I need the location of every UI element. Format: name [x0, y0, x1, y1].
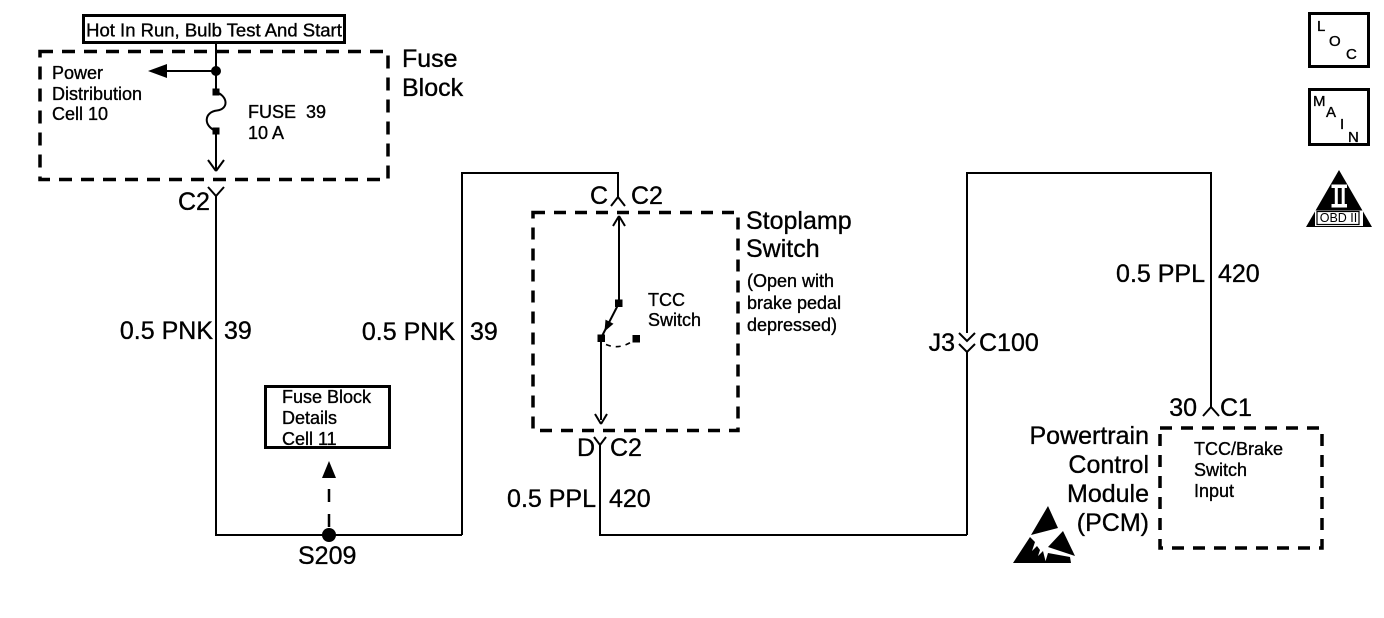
svg-text:C: C	[1346, 46, 1357, 63]
svg-text:420: 420	[609, 485, 651, 513]
wire: 0.5 PPL 420 from C100 up and across to PCM	[967, 173, 1211, 407]
connector C2 below fuse block	[178, 187, 224, 216]
svg-text:Details: Details	[282, 408, 337, 428]
svg-text:0.5 PPL: 0.5 PPL	[1116, 260, 1205, 288]
fuse block dashed box	[40, 52, 388, 180]
svg-text:J3: J3	[929, 329, 955, 357]
wire: 0.5 PNK 39 up and across to stoplamp switch	[462, 173, 618, 535]
label: 0.5 PPL 420 (upper right)	[1116, 260, 1260, 288]
svg-text:C: C	[590, 182, 608, 210]
svg-text:Stoplamp: Stoplamp	[746, 207, 852, 235]
svg-text:Powertrain: Powertrain	[1030, 422, 1150, 450]
label: 0.5 PNK 39 (middle)	[362, 318, 498, 346]
svg-text:(Open with: (Open with	[747, 271, 834, 291]
LOC symbol box	[1310, 14, 1369, 67]
dashed reference arrow from S209 to details box	[322, 461, 336, 527]
svg-text:Switch: Switch	[648, 310, 701, 330]
callout box: Fuse Block Details Cell 11	[266, 387, 390, 450]
MAIN symbol box	[1310, 90, 1369, 147]
node: junction at fuse feed	[211, 66, 221, 76]
svg-text:C2: C2	[631, 182, 663, 210]
wire: switch output with down arrow	[595, 341, 607, 424]
svg-text:Fuse Block: Fuse Block	[282, 387, 372, 407]
wire: switch input with up arrow	[613, 216, 625, 300]
splice S209	[322, 528, 336, 542]
svg-text:Cell 10: Cell 10	[52, 104, 108, 124]
connector terminal C at C2 (stoplamp input)	[590, 182, 663, 210]
svg-text:I: I	[1340, 116, 1344, 133]
svg-text:O: O	[1329, 33, 1341, 50]
svg-text:depressed): depressed)	[747, 315, 837, 335]
svg-text:Power: Power	[52, 63, 103, 83]
svg-text:39: 39	[470, 318, 498, 346]
wire: fuse output with down arrow	[208, 134, 224, 171]
ESD sensitive device symbol	[1013, 506, 1075, 563]
svg-text:OBD II: OBD II	[1320, 211, 1358, 225]
svg-text:C2: C2	[610, 434, 642, 462]
svg-text:C1: C1	[1220, 394, 1252, 422]
wire: up from bottom run to C100	[966, 352, 968, 535]
svg-text:L: L	[1317, 18, 1325, 35]
svg-text:TCC: TCC	[648, 290, 685, 310]
label: 0.5 PNK 39 (left)	[120, 317, 252, 345]
svg-text:C100: C100	[979, 329, 1039, 357]
svg-text:Hot In Run, Bulb Test And Star: Hot In Run, Bulb Test And Start	[86, 20, 342, 41]
svg-text:Input: Input	[1194, 481, 1234, 501]
svg-text:Control: Control	[1068, 451, 1149, 479]
svg-text:M: M	[1313, 93, 1326, 110]
label box: Hot In Run, Bulb Test And Start	[84, 16, 345, 43]
wire: 0.5 PPL 420 from D down and along bottom	[600, 445, 967, 535]
label: Powertrain Control Module (PCM)	[1030, 422, 1150, 537]
connector J3 at C100	[929, 329, 1039, 357]
svg-text:Distribution: Distribution	[52, 84, 142, 104]
TCC switch blade	[598, 300, 641, 347]
svg-text:Block: Block	[402, 74, 464, 102]
svg-text:N: N	[1348, 129, 1359, 146]
svg-text:A: A	[1326, 104, 1336, 121]
svg-text:420: 420	[1218, 260, 1260, 288]
stoplamp switch dashed box	[533, 213, 738, 431]
svg-text:0.5 PPL: 0.5 PPL	[507, 485, 596, 513]
PCM dashed box: TCC/Brake Switch Input	[1160, 428, 1322, 548]
svg-text:C2: C2	[178, 188, 210, 216]
svg-text:0.5 PNK: 0.5 PNK	[362, 318, 455, 346]
svg-text:10 A: 10 A	[248, 123, 284, 143]
svg-text:Cell 11: Cell 11	[282, 429, 337, 449]
svg-text:Switch: Switch	[746, 235, 820, 263]
svg-text:30: 30	[1169, 394, 1197, 422]
connector terminal D at C2 (stoplamp output)	[577, 434, 642, 462]
svg-text:(PCM): (PCM)	[1077, 509, 1149, 537]
label: Fuse Block	[402, 45, 464, 102]
svg-text:TCC/Brake: TCC/Brake	[1194, 439, 1283, 459]
label: TCC Switch	[648, 290, 701, 330]
svg-text:D: D	[577, 434, 595, 462]
label: FUSE 39 10 A	[248, 102, 326, 143]
svg-text:S209: S209	[298, 542, 356, 570]
label: Power Distribution Cell 10	[52, 63, 142, 124]
svg-text:Module: Module	[1067, 480, 1149, 508]
label: 0.5 PPL 420 (lower)	[507, 485, 651, 513]
svg-text:Switch: Switch	[1194, 460, 1247, 480]
wire: power feed arrow to other circuits	[148, 64, 216, 78]
label: Stoplamp Switch (Open with brake pedal depressed)	[746, 207, 852, 335]
wire: 0.5 PNK 39 from C2 down and along bottom	[216, 196, 462, 535]
fuse FUSE 39 10 A	[207, 89, 226, 135]
wire: hot feed into fuse block	[215, 44, 217, 90]
svg-text:brake pedal: brake pedal	[747, 293, 841, 313]
svg-text:0.5 PNK: 0.5 PNK	[120, 317, 213, 345]
connector terminal 30 at C1 (PCM input)	[1169, 394, 1252, 422]
OBD II symbol	[1306, 170, 1372, 227]
svg-text:FUSE 39: FUSE 39	[248, 102, 326, 122]
svg-text:39: 39	[224, 317, 252, 345]
svg-text:Fuse: Fuse	[402, 45, 458, 73]
